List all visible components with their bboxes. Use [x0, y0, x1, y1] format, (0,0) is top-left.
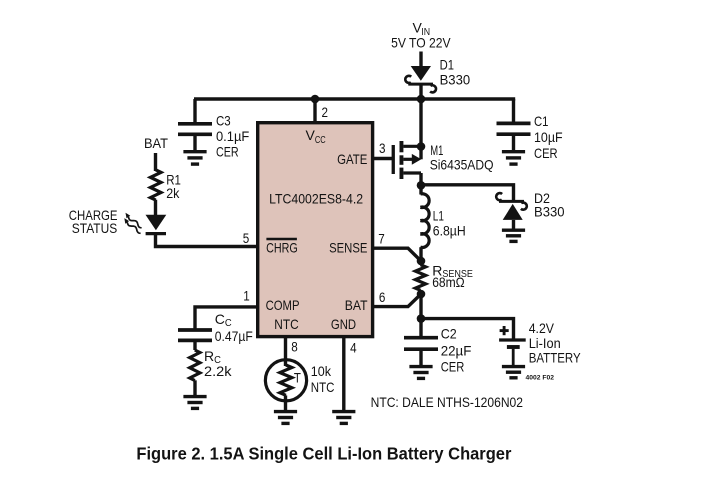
wire CC to RC	[193, 342, 196, 350]
wire pin 3 gate lead	[374, 157, 392, 160]
svg-text:BATTERY: BATTERY	[529, 350, 582, 366]
svg-text:5: 5	[243, 230, 250, 246]
svg-text:C2: C2	[441, 326, 457, 342]
svg-text:7: 7	[378, 230, 385, 246]
op-amp U1 LTC4002ES8-4.2 body	[258, 123, 373, 337]
svg-text:10µF: 10µF	[534, 129, 563, 145]
wire to D2	[421, 185, 514, 200]
svg-text:2: 2	[322, 104, 329, 120]
svg-text:CC: CC	[215, 311, 232, 329]
svg-text:4002 F02: 4002 F02	[526, 374, 555, 381]
svg-text:5V TO 22V: 5V TO 22V	[391, 34, 451, 50]
svg-text:NTC: DALE NTHS-1206N02: NTC: DALE NTHS-1206N02	[371, 394, 524, 410]
ground thermistor	[274, 412, 297, 424]
svg-text:1: 1	[243, 288, 250, 304]
resistor RC	[190, 350, 200, 381]
wire C1 drop	[512, 99, 515, 123]
wire top rail	[194, 97, 515, 100]
wire pin 7 SENSE	[374, 248, 421, 261]
ground pin 4	[332, 412, 355, 424]
ground D2	[502, 230, 525, 241]
wire pin 5 CHRG	[156, 234, 258, 247]
ground RC	[183, 397, 206, 409]
svg-text:LTC4002ES8-4.2: LTC4002ES8-4.2	[269, 190, 363, 206]
svg-text:CER: CER	[216, 144, 239, 160]
wire battery rail	[421, 319, 514, 339]
node junction battery rail	[417, 314, 426, 323]
node junction rail/pin2	[311, 95, 320, 104]
svg-text:M1: M1	[430, 142, 443, 158]
resistor RSENSE	[415, 265, 425, 291]
ground C3	[183, 152, 206, 164]
svg-text:2.2k: 2.2k	[204, 363, 233, 379]
svg-text:C3: C3	[216, 113, 231, 129]
svg-text:CER: CER	[534, 145, 558, 161]
svg-text:Li-Ion: Li-Ion	[529, 335, 561, 351]
ground C2	[409, 367, 432, 379]
capacitor CC	[178, 330, 212, 340]
svg-text:22µF: 22µF	[441, 342, 472, 358]
ground C1	[502, 152, 525, 164]
svg-text:NTC: NTC	[311, 379, 335, 395]
svg-text:6: 6	[379, 289, 386, 305]
wire C3 drop	[193, 99, 196, 123]
svg-text:2k: 2k	[166, 185, 180, 201]
wire thermistor to ground	[284, 395, 287, 410]
svg-text:GATE: GATE	[337, 151, 367, 167]
svg-text:T: T	[294, 369, 301, 385]
svg-text:8: 8	[291, 338, 298, 354]
svg-text:BAT: BAT	[345, 297, 368, 313]
wire M1 drain down	[419, 173, 422, 186]
node junction M1 source	[417, 142, 426, 151]
wire RSENSE to battery node	[419, 294, 422, 319]
svg-text:4: 4	[350, 340, 357, 356]
capacitor C1	[497, 123, 531, 134]
wire C1 to ground	[512, 136, 515, 151]
svg-text:Figure 2. 1.5A Single Cell Li-: Figure 2. 1.5A Single Cell Li-Ion Batter…	[136, 444, 511, 464]
wire D1 to rail and M1 source	[419, 86, 422, 148]
svg-text:C1: C1	[534, 113, 549, 129]
wire BAT to R1	[154, 153, 157, 171]
label U1 CHRG with overline	[266, 238, 297, 240]
svg-text:0.47µF: 0.47µF	[215, 328, 253, 344]
svg-text:COMP: COMP	[266, 297, 300, 313]
node junction rail/D1	[417, 95, 426, 104]
svg-text:NTC: NTC	[274, 316, 298, 332]
wire pin 6 BAT	[374, 294, 421, 307]
svg-text:4.2V: 4.2V	[529, 320, 555, 336]
svg-text:B330: B330	[534, 204, 565, 220]
node junction M1/L1/D2	[417, 181, 426, 190]
svg-text:10k: 10k	[311, 363, 332, 379]
ground battery	[502, 367, 525, 378]
svg-text:L1: L1	[433, 208, 444, 224]
svg-text:D1: D1	[440, 57, 455, 73]
LED light arrows	[126, 213, 142, 228]
svg-text:CHRG: CHRG	[266, 239, 298, 255]
wire pin 4 GND	[342, 336, 345, 410]
diode D2 (Schottky, B330)	[496, 193, 527, 229]
wire C3 to ground	[193, 136, 196, 151]
wire VIN stub	[419, 52, 422, 68]
LED charge status indicator	[146, 215, 167, 231]
diode D1 (Schottky, B330)	[405, 66, 436, 92]
svg-text:GND: GND	[331, 316, 356, 332]
svg-text:SENSE: SENSE	[329, 239, 367, 255]
wire C2 drop	[419, 319, 422, 337]
capacitor C3	[178, 124, 212, 135]
svg-text:B330: B330	[440, 71, 471, 87]
svg-text:BAT: BAT	[144, 135, 168, 151]
resistor R1	[150, 170, 161, 200]
wire RC to ground	[193, 380, 196, 395]
thermistor RT1 10k NTC	[265, 360, 306, 401]
svg-text:3: 3	[379, 140, 386, 156]
svg-text:0.1µF: 0.1µF	[216, 128, 249, 144]
transistor M1 Si6435ADQ	[392, 141, 422, 179]
svg-text:6.8µH: 6.8µH	[433, 222, 466, 238]
wire C2 to ground	[419, 351, 422, 366]
wire R1 to LED	[154, 200, 157, 216]
node junction RSENSE/BAT	[417, 290, 426, 299]
battery BT1 4.2V Li-Ion	[499, 340, 526, 365]
svg-text:STATUS: STATUS	[72, 220, 117, 236]
wire pin 8 NTC	[284, 336, 287, 366]
inductor L1	[419, 185, 422, 194]
svg-text:Si6435ADQ: Si6435ADQ	[430, 157, 494, 173]
svg-text:68mΩ: 68mΩ	[432, 274, 465, 290]
wire pin 2	[313, 99, 316, 122]
capacitor C2	[404, 338, 438, 350]
label battery plus sign	[500, 329, 509, 332]
wire pin 1 COMP	[195, 307, 257, 329]
svg-text:CER: CER	[441, 359, 465, 375]
node junction L1/RSENSE	[417, 257, 426, 266]
